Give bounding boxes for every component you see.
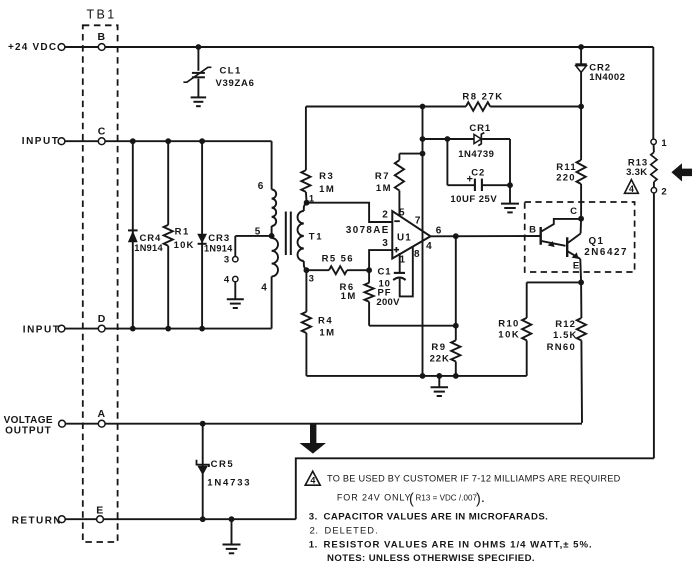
node pin3/R5/R6 junction — [366, 267, 372, 273]
node C2 right junction — [507, 182, 513, 188]
terminal block TB1 — [83, 8, 118, 543]
svg-text:R3: R3 — [319, 171, 334, 182]
terminal D — [98, 313, 106, 332]
ground (transformer pin 4) — [227, 299, 244, 308]
ground (return) — [223, 545, 241, 554]
node R8/CR2 junction — [578, 104, 584, 110]
svg-text:220: 220 — [556, 173, 575, 184]
node A/CR5 junction — [200, 421, 206, 427]
wire R6 to R9 — [369, 325, 456, 327]
node E/ground junction — [229, 516, 235, 522]
wire right rail bottom — [653, 193, 655, 458]
node R8/supply junction — [420, 104, 426, 110]
wire emitter to R10 — [527, 281, 581, 283]
label Q1 — [584, 236, 628, 258]
svg-text:R9: R9 — [431, 342, 446, 353]
wire return ground stem — [231, 519, 233, 544]
svg-text:1N4002: 1N4002 — [589, 72, 625, 83]
svg-text:B: B — [529, 225, 536, 236]
svg-text:R5 56: R5 56 — [322, 254, 354, 265]
wire ground bus — [306, 375, 526, 377]
resistor R10 — [498, 282, 531, 376]
svg-text:1N914: 1N914 — [204, 243, 233, 253]
note line 6 — [327, 553, 535, 564]
svg-text:INPUT: INPUT — [22, 136, 60, 147]
terminal B — [98, 31, 106, 50]
label +24 VDC — [8, 42, 57, 53]
svg-text:C2: C2 — [471, 168, 485, 179]
svg-text:3: 3 — [309, 274, 314, 285]
svg-text:R11: R11 — [556, 162, 577, 173]
svg-text:C1: C1 — [378, 266, 392, 277]
label INPUT (C) — [22, 136, 60, 147]
wire Q1 collector — [580, 219, 583, 234]
resistor R5 — [306, 254, 369, 275]
svg-text:4: 4 — [426, 241, 432, 252]
svg-text:8: 8 — [414, 249, 420, 260]
svg-text:3.: 3. — [309, 512, 318, 523]
transistor Q1 emitter 2 — [568, 251, 580, 259]
svg-text:CAPACITOR VALUES ARE IN MICROF: CAPACITOR VALUES ARE IN MICROFARADS. — [324, 512, 549, 523]
svg-text:3078AE: 3078AE — [346, 225, 390, 236]
resistor R1 — [164, 141, 195, 328]
svg-text:1N4739: 1N4739 — [458, 149, 494, 160]
wire INPUT C bus — [65, 140, 272, 142]
svg-text:10UF 25V: 10UF 25V — [450, 194, 497, 205]
svg-text:1N4733: 1N4733 — [207, 478, 251, 489]
pin 8 label — [414, 249, 420, 260]
node R9/ground junction — [453, 373, 459, 379]
wire VOLTAGE OUTPUT bus — [65, 423, 582, 425]
pin 7 label — [415, 216, 421, 227]
svg-text:CR3: CR3 — [208, 233, 230, 244]
pin 6 label — [436, 226, 442, 237]
note line 1 — [327, 474, 621, 484]
svg-text:1.5K: 1.5K — [553, 330, 577, 341]
node 5 junction — [269, 233, 275, 239]
svg-text:2: 2 — [661, 187, 666, 198]
svg-text:DELETED.: DELETED. — [325, 525, 379, 535]
resistor R9 — [430, 236, 461, 376]
capacitor C2 — [447, 139, 510, 205]
svg-text:1M: 1M — [341, 291, 357, 302]
note line 3 — [309, 512, 548, 523]
svg-text:R8 27K: R8 27K — [462, 92, 503, 103]
svg-text:(: ( — [409, 492, 414, 508]
wire stub 4 to ground — [234, 282, 236, 299]
wire right rail top — [652, 47, 654, 139]
svg-text:RN60: RN60 — [547, 342, 577, 353]
node output/R9 junction — [453, 233, 459, 239]
transformer T1 core — [286, 212, 291, 256]
svg-text:TO BE USED BY CUSTOMER IF 7-12: TO BE USED BY CUSTOMER IF 7-12 MILLIAMPS… — [327, 474, 621, 484]
wire note step — [296, 458, 654, 519]
node D/CR4 junction — [130, 326, 136, 332]
wire pin 2 input — [307, 203, 393, 222]
label E — [573, 260, 579, 271]
wire supply vertical (pins 7/4) — [422, 107, 424, 376]
wire Q1 emitter — [579, 259, 582, 283]
wire op-amp output — [431, 235, 541, 237]
svg-text:R12: R12 — [555, 319, 576, 330]
label 3078AE — [346, 225, 390, 236]
wire RETURN bus — [65, 518, 296, 520]
svg-text:RETURN: RETURN — [12, 515, 62, 526]
diode CR2 — [575, 47, 625, 107]
note triangle 4 (R13) — [625, 180, 639, 194]
node E/CR5 junction — [200, 516, 206, 522]
svg-text:U1: U1 — [397, 233, 412, 244]
terminal E — [96, 504, 103, 522]
ground (CL1) — [191, 97, 207, 106]
terminal stub RETURN — [58, 516, 65, 523]
stub terminal 4 — [224, 275, 238, 286]
svg-text:22K: 22K — [430, 354, 450, 365]
terminal stub +24 VDC — [58, 44, 65, 51]
svg-text:): ) — [476, 492, 481, 508]
svg-text:6: 6 — [258, 181, 264, 192]
terminal stub INPUT C — [58, 138, 65, 145]
varistor CL1 — [183, 47, 254, 97]
resistor R4 — [302, 270, 336, 376]
svg-text:1M: 1M — [319, 327, 335, 338]
terminal 2 — [651, 187, 666, 198]
node 1 (secondary top) — [304, 194, 314, 206]
svg-text:R10: R10 — [498, 319, 519, 330]
svg-text:1N914: 1N914 — [134, 243, 163, 253]
resistor R7 — [375, 154, 423, 216]
node Q1 emitter junction — [578, 280, 584, 286]
svg-text:TB1: TB1 — [86, 8, 116, 22]
svg-text:1: 1 — [661, 138, 667, 149]
pin 5 label — [255, 226, 261, 237]
pin 6 label — [258, 181, 264, 192]
svg-text:B: B — [98, 31, 106, 43]
note line 5 — [309, 540, 593, 551]
label T1 — [309, 232, 324, 243]
terminal 1 — [651, 138, 667, 149]
svg-text:4: 4 — [261, 283, 267, 294]
node C/CR4 junction — [130, 138, 136, 144]
node Q1 collector junction — [578, 216, 584, 222]
pin 4 label — [261, 283, 267, 294]
node R9/R6 junction — [453, 323, 459, 329]
transformer T1 primary — [272, 141, 278, 328]
wire pin 1 to C1 — [399, 253, 401, 273]
transistor Q1 collector 2 — [568, 234, 581, 243]
label INPUT (D) — [23, 324, 61, 335]
diode CR3 — [197, 141, 233, 328]
svg-text:4: 4 — [629, 184, 634, 194]
svg-text:3: 3 — [382, 238, 388, 249]
svg-text:R7: R7 — [375, 171, 390, 182]
label RETURN (E) — [12, 515, 62, 526]
pin 3 label — [382, 238, 388, 249]
svg-text:5: 5 — [399, 208, 405, 219]
svg-text:R4: R4 — [318, 315, 333, 326]
svg-text:FOR 24V ONLY: FOR 24V ONLY — [337, 493, 412, 503]
svg-text:3: 3 — [224, 255, 229, 266]
svg-text:4: 4 — [224, 275, 230, 286]
resistor R8 — [462, 92, 581, 111]
svg-text:A: A — [98, 408, 106, 420]
svg-text:VOLTAGE: VOLTAGE — [4, 415, 53, 426]
svg-text:4: 4 — [310, 476, 315, 486]
op-amp U1 — [392, 211, 430, 258]
transistor Q1 emitter 1 — [542, 241, 566, 247]
svg-text:R13 = VDC /.007: R13 = VDC /.007 — [416, 494, 478, 503]
node C/R1 junction — [165, 138, 171, 144]
note triangle 4 (notes) — [305, 471, 320, 485]
svg-text:+24 VDC: +24 VDC — [8, 42, 57, 53]
pin 5 label — [399, 208, 405, 219]
svg-text:10K: 10K — [174, 240, 195, 251]
pin 4 label — [426, 241, 432, 252]
svg-text:OUTPUT: OUTPUT — [5, 426, 52, 437]
svg-text:D: D — [98, 313, 106, 325]
wire C1 to pin 8 — [400, 247, 413, 297]
svg-text:2: 2 — [382, 209, 388, 220]
node D/R1 junction — [165, 326, 171, 332]
resistor R3 — [301, 107, 335, 203]
ground (main) — [431, 387, 449, 396]
wire INPUT D bus — [65, 328, 272, 330]
transistor Q1 base bar 1 — [540, 227, 542, 245]
note line 2 — [337, 492, 485, 508]
node C/CR3 junction — [199, 138, 205, 144]
wire +24V bus — [65, 46, 654, 48]
svg-text:1M: 1M — [319, 184, 335, 195]
diode CR4 — [128, 141, 164, 328]
svg-text:+: + — [467, 174, 473, 186]
transistor Q1 dashed box — [525, 202, 635, 272]
svg-text:2.: 2. — [310, 525, 319, 536]
svg-text:V39ZA6: V39ZA6 — [216, 78, 255, 89]
zener CR5 — [197, 424, 252, 520]
ground (C2) — [501, 204, 519, 213]
resistor R12 — [547, 282, 586, 423]
svg-text:200V: 200V — [376, 297, 400, 308]
svg-text:1M: 1M — [376, 183, 392, 194]
terminal stub VOLTAGE OUTPUT — [59, 420, 66, 427]
wire ground stem — [438, 376, 440, 387]
wire tap 5 to stub 3 — [235, 236, 271, 257]
node C2 left junction — [445, 136, 451, 142]
terminal A — [98, 408, 106, 427]
svg-text:INPUT: INPUT — [23, 324, 61, 335]
svg-text:RESISTOR VALUES ARE IN OHMS 1/: RESISTOR VALUES ARE IN OHMS 1/4 WATT,± 5… — [324, 540, 593, 551]
pin 2 label — [382, 209, 388, 220]
svg-text:C: C — [570, 206, 577, 217]
svg-text:R1: R1 — [175, 227, 190, 238]
node +24V/CR2 junction — [578, 44, 584, 50]
wire pin 3 input — [369, 250, 392, 270]
label B — [529, 225, 536, 236]
transistor Q1 collector 1 — [542, 219, 582, 231]
pin 1 label — [400, 254, 406, 265]
node supply/ground junction — [420, 373, 426, 379]
svg-text:3.3K: 3.3K — [626, 167, 647, 178]
terminal stub INPUT D — [58, 325, 65, 332]
svg-text:T1: T1 — [309, 232, 324, 243]
terminal C — [98, 125, 106, 144]
svg-text:C: C — [98, 125, 106, 137]
svg-text:.: . — [482, 494, 485, 505]
resistor R6 — [340, 270, 374, 326]
svg-text:E: E — [96, 504, 103, 516]
transistor Q1 base bar 2 — [566, 237, 568, 257]
svg-text:7: 7 — [415, 216, 421, 227]
node CR1 bus junction — [420, 136, 426, 142]
svg-text:NOTES: UNLESS OTHERWISE SPECIF: NOTES: UNLESS OTHERWISE SPECIFIED. — [327, 553, 535, 564]
label VOLTAGE OUTPUT (A) — [4, 415, 53, 436]
resistor R13 — [626, 145, 657, 187]
capacitor C1 — [376, 266, 405, 308]
transformer T1 secondary — [298, 203, 307, 271]
node 3 (secondary bottom) — [304, 267, 314, 284]
label C — [570, 206, 577, 217]
svg-text:CR5: CR5 — [211, 459, 235, 470]
svg-text:10K: 10K — [498, 330, 520, 341]
svg-text:Q1: Q1 — [589, 236, 605, 247]
node R7 bus junction — [420, 151, 426, 157]
node +24V/CL1 junction — [196, 44, 202, 50]
node D/CR3 junction — [199, 326, 205, 332]
arrow (down, at output bus) — [300, 424, 326, 453]
pointer arrow (right edge) — [671, 163, 692, 181]
wire R3 to R8 bus — [306, 106, 466, 108]
svg-text:CL1: CL1 — [220, 66, 242, 77]
stub terminal 3 — [224, 255, 238, 266]
node ground symbol junction — [436, 373, 442, 379]
svg-text:E: E — [573, 260, 579, 271]
svg-text:1.: 1. — [309, 540, 318, 551]
note line 4 — [310, 525, 379, 536]
svg-text:CR1: CR1 — [469, 123, 491, 134]
resistor R11 — [556, 107, 585, 219]
zener CR1 — [423, 123, 511, 160]
svg-text:2N6427: 2N6427 — [584, 247, 628, 258]
svg-text:6: 6 — [436, 226, 442, 237]
